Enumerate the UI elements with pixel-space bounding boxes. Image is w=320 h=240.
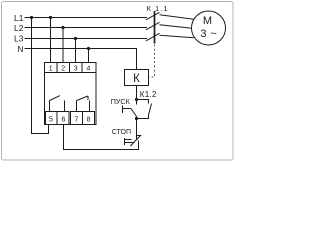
- node A: [135, 98, 138, 101]
- node L1-junction left: [30, 16, 33, 19]
- K1.1 linkage dashed to coil: [149, 45, 155, 78]
- contactor contacts K1.1: [146, 12, 194, 41]
- wire L3 bus: [25, 38, 148, 40]
- wire N bus to coil K: [25, 49, 137, 70]
- wire pin 4 drop: [88, 49, 90, 63]
- wire contact to motor middle: [160, 25, 192, 29]
- svg-text:К1.2: К1.2: [140, 90, 157, 99]
- svg-text:L3: L3: [14, 34, 24, 44]
- svg-text:1: 1: [49, 66, 53, 73]
- node L1-pin1: [49, 16, 52, 19]
- svg-text:L1: L1: [14, 13, 24, 23]
- K1.1 blade L1: [146, 12, 160, 19]
- wire L1 to pin 5: [32, 18, 49, 134]
- svg-text:2: 2: [61, 66, 65, 73]
- contact K1.2: [137, 100, 152, 119]
- svg-text:L2: L2: [14, 23, 24, 33]
- svg-text:3: 3: [74, 66, 78, 73]
- relay contact 5-6: [50, 96, 65, 112]
- wire contact to motor top: [160, 15, 194, 19]
- svg-text:6: 6: [61, 116, 65, 123]
- wire pin 2 drop: [62, 28, 64, 63]
- wire pin 6 to stop button: [64, 125, 139, 150]
- svg-text:N: N: [17, 44, 23, 54]
- svg-text:3 ~: 3 ~: [200, 28, 217, 40]
- pushbutton PUSK: [123, 100, 137, 119]
- motor M: [192, 11, 226, 45]
- svg-text:ПУСК: ПУСК: [111, 97, 131, 106]
- coil K box: [125, 70, 149, 86]
- svg-text:8: 8: [87, 116, 91, 123]
- border frame: [2, 2, 234, 161]
- node L2-pin2: [61, 26, 64, 29]
- node B: [135, 117, 138, 120]
- svg-text:4: 4: [86, 66, 90, 73]
- relay module outline: [45, 63, 97, 125]
- K1.1 linkage bar: [154, 11, 156, 44]
- K1.1 blade L3: [146, 33, 160, 41]
- svg-text:5: 5: [49, 116, 53, 123]
- node L3-pin3: [74, 37, 77, 40]
- node N-pin4: [87, 47, 90, 50]
- wire coil K to node A: [136, 86, 138, 100]
- wire L1 bus: [25, 17, 148, 19]
- svg-text:M: M: [203, 15, 212, 27]
- wire contact to motor bottom: [160, 35, 194, 38]
- terminal row 5-6: [46, 112, 70, 125]
- svg-text:7: 7: [74, 116, 78, 123]
- relay contact 7-8: [77, 96, 90, 112]
- svg-text:К: К: [133, 73, 140, 85]
- K1.1 blade L2: [146, 22, 160, 30]
- svg-text:СТОП: СТОП: [112, 129, 131, 136]
- wire L2 bus: [25, 27, 148, 29]
- wire pin 1 drop: [50, 18, 52, 63]
- terminal row 7-8: [71, 112, 95, 125]
- terminal row 1-4: [45, 63, 97, 73]
- pushbutton STOP: [125, 119, 142, 147]
- svg-text:К 1.1: К 1.1: [147, 4, 169, 13]
- wire pin 3 drop: [75, 39, 77, 63]
